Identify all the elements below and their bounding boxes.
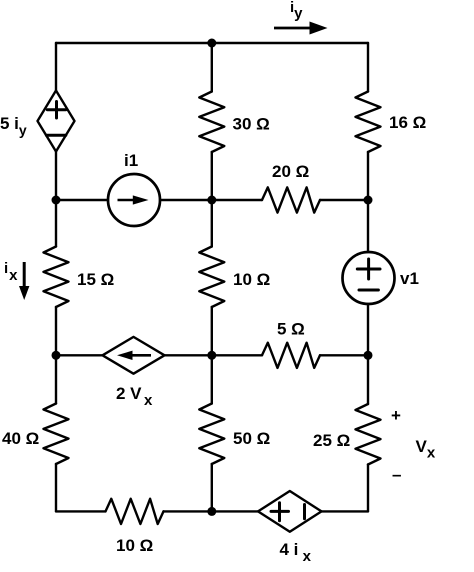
wire left column bottom: [55, 464, 57, 511]
dependent source 4ix (diamond): [258, 491, 322, 532]
voltage source v1 (circle): [343, 252, 395, 304]
svg-text:16 Ω: 16 Ω: [389, 113, 426, 132]
wire top rail: [56, 42, 368, 44]
svg-text:10 Ω: 10 Ω: [116, 536, 153, 555]
wire row C 2Vx to 5-ohm: [165, 354, 263, 356]
svg-text:iy: iy: [290, 0, 303, 22]
wire row B i1 to 20-ohm: [160, 199, 262, 201]
wire bottom 4ix to right: [322, 510, 369, 512]
svg-text:10 Ω: 10 Ω: [233, 270, 270, 289]
svg-text:2 Vx: 2 Vx: [116, 384, 153, 409]
wire left column upper: [55, 43, 57, 91]
svg-text:i1: i1: [124, 151, 138, 170]
v1 plus sign: [357, 268, 380, 271]
wire middle column top: [211, 43, 213, 92]
node dot row B right: [364, 196, 373, 205]
wire right column between 16-ohm and v1: [367, 152, 369, 252]
wire right column bottom: [367, 465, 369, 512]
wire middle column between 10-ohm and 50-ohm: [211, 307, 213, 404]
svg-text:Vx: Vx: [416, 437, 436, 462]
resistor 15ohm (left middle): [44, 247, 69, 308]
wire bottom left: [56, 510, 106, 512]
node dot top middle: [207, 39, 216, 48]
wire right column top: [367, 43, 369, 92]
wire row C left node to 2Vx: [56, 354, 103, 356]
wire row C 5-ohm to right node: [320, 354, 368, 356]
current arrow ix (left): [19, 262, 29, 300]
5iy plus sign: [47, 108, 66, 111]
dependent source 5iy (diamond): [38, 91, 75, 152]
resistor 40ohm (left bottom): [44, 404, 69, 465]
wire left column between 5iy and 15-ohm: [55, 152, 57, 247]
svg-text:4 i x: 4 i x: [280, 540, 312, 565]
svg-text:25 Ω: 25 Ω: [313, 431, 350, 450]
2Vx arrow (inside diamond, pointing left): [117, 351, 151, 360]
resistor 50ohm (middle bottom): [199, 404, 224, 465]
svg-text:ix: ix: [4, 260, 18, 284]
resistor 30ohm (middle top): [199, 92, 224, 153]
wire left column between 15-ohm and 40-ohm: [55, 307, 57, 404]
resistor 10ohm (middle): [199, 247, 224, 308]
wire bottom 10-ohm to 4ix: [164, 510, 259, 512]
current source i1 (circle): [108, 174, 160, 226]
wire middle column bottom: [211, 464, 213, 511]
svg-text:40 Ω: 40 Ω: [2, 429, 39, 448]
4ix minus bar: [303, 505, 306, 519]
node dot row B middle: [207, 196, 216, 205]
i1 arrow (inside circle): [118, 195, 149, 204]
node dot row C middle: [207, 351, 216, 360]
node dot row B left: [52, 196, 61, 205]
svg-text:20 Ω: 20 Ω: [272, 162, 309, 181]
svg-text:50 Ω: 50 Ω: [233, 429, 270, 448]
5iy minus sign: [46, 134, 65, 137]
node dot row C left: [52, 351, 61, 360]
svg-text:30 Ω: 30 Ω: [233, 115, 270, 134]
resistor 20ohm (horizontal row B): [262, 187, 320, 212]
wire row B left (node to i1): [56, 199, 108, 201]
dependent source 2Vx (diamond): [103, 337, 165, 374]
current arrow iy (top): [274, 22, 328, 35]
resistor 10ohm (horizontal bottom): [106, 499, 164, 524]
wire right column between v1 and 25-ohm: [367, 304, 369, 404]
node dot bottom middle: [207, 507, 216, 516]
svg-text:+: +: [391, 406, 401, 425]
resistor 16ohm (right top): [356, 92, 381, 153]
4ix plus sign: [271, 510, 289, 513]
svg-text:–: –: [392, 465, 401, 484]
wire row B 20-ohm to right node: [320, 199, 368, 201]
svg-text:5 iy: 5 iy: [0, 114, 27, 138]
resistor 5ohm (horizontal row C): [262, 343, 320, 368]
wire middle column between 30-ohm and 10-ohm: [211, 152, 213, 247]
svg-text:v1: v1: [400, 269, 419, 288]
svg-text:15 Ω: 15 Ω: [77, 270, 114, 289]
resistor 25ohm (right bottom): [356, 404, 381, 465]
v1 minus sign: [359, 289, 378, 292]
node dot row C right: [364, 351, 373, 360]
svg-text:5 Ω: 5 Ω: [277, 320, 305, 339]
